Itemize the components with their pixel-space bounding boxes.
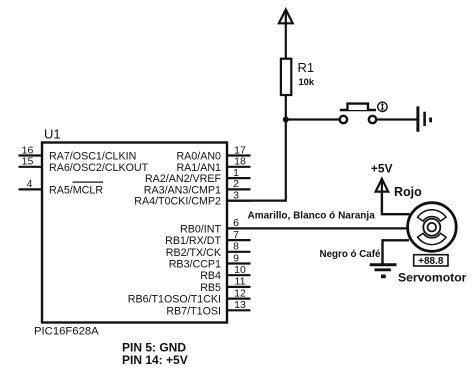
pin 12 RB6 [128, 287, 251, 305]
svg-text:R1: R1 [298, 60, 315, 75]
svg-text:RA5/MCLR: RA5/MCLR [49, 184, 103, 196]
pin 18 RA1 [176, 156, 250, 174]
svg-text:2: 2 [233, 178, 239, 190]
pin 9 RB3 [169, 252, 251, 270]
ground (right of switch) [418, 106, 431, 131]
pin 4 RA5 [19, 178, 104, 196]
svg-text:8: 8 [233, 241, 239, 253]
svg-text:RB5: RB5 [200, 282, 221, 294]
svg-text:+88.8: +88.8 [418, 256, 444, 267]
pin 13 RB7 [166, 299, 250, 317]
pin 15 RA6 [19, 156, 149, 174]
svg-text:Negro ó Café: Negro ó Café [320, 249, 382, 260]
pin 1 RA2 [145, 167, 251, 185]
svg-text:RA7/OSC1/CLKIN: RA7/OSC1/CLKIN [49, 151, 136, 163]
svg-text:12: 12 [234, 287, 246, 299]
wire pin3 horizontal [227, 200, 287, 202]
svg-text:PIC16F628A: PIC16F628A [34, 326, 99, 338]
svg-text:16: 16 [22, 144, 34, 156]
pin 17 RA0 [176, 144, 250, 162]
svg-text:RB6/T1OSO/T1CKI: RB6/T1OSO/T1CKI [128, 294, 221, 306]
power arrow +5V (servo) [376, 179, 389, 192]
svg-text:RB3/CCP1: RB3/CCP1 [169, 259, 221, 271]
svg-text:U1: U1 [44, 127, 61, 142]
svg-text:PIN 14: +5V: PIN 14: +5V [122, 353, 188, 367]
svg-text:Servomotor: Servomotor [398, 270, 467, 284]
svg-text:RB4: RB4 [200, 270, 221, 282]
svg-text:11: 11 [235, 276, 246, 288]
svg-text:RB2/TX/CK: RB2/TX/CK [166, 247, 222, 259]
svg-text:RB0/INT: RB0/INT [180, 223, 221, 235]
svg-text:1: 1 [233, 167, 239, 179]
svg-text:RA4/T0CKI/CMP2: RA4/T0CKI/CMP2 [134, 196, 221, 208]
svg-text:RB7/T1OSI: RB7/T1OSI [166, 305, 221, 317]
wire junction to switch [286, 118, 340, 120]
wire +5V to servo [382, 192, 410, 215]
ground (servo) [370, 265, 397, 277]
push button switch [340, 102, 387, 123]
pin 2 RA3 [144, 178, 251, 196]
svg-text:RB1/RX/DT: RB1/RX/DT [165, 235, 221, 247]
svg-text:RA0/AN0: RA0/AN0 [176, 151, 221, 163]
pin 10 RB4 [200, 264, 250, 282]
wire switch to ground [376, 118, 418, 120]
svg-text:Amarillo, Blanco ó Naranja: Amarillo, Blanco ó Naranja [248, 211, 376, 222]
svg-text:RA6/OSC2/CLKOUT: RA6/OSC2/CLKOUT [49, 162, 149, 174]
junction node [283, 117, 289, 123]
svg-text:4: 4 [27, 178, 33, 190]
svg-text:18: 18 [234, 156, 246, 168]
svg-text:9: 9 [233, 252, 239, 264]
pin 6 RB0 [180, 217, 239, 235]
wire pin6 signal to servo [227, 227, 409, 229]
pin 7 RB1 [165, 229, 250, 247]
svg-text:RA2/AN2/VREF: RA2/AN2/VREF [145, 173, 221, 185]
svg-text:Rojo: Rojo [394, 185, 422, 199]
resistor R1 [281, 59, 315, 95]
svg-text:17: 17 [234, 144, 246, 156]
microcontroller U1 (PIC16F628A) [34, 127, 227, 338]
svg-text:13: 13 [234, 299, 246, 311]
svg-text:RA3/AN3/CMP1: RA3/AN3/CMP1 [144, 184, 221, 196]
svg-text:RA1/AN1: RA1/AN1 [176, 162, 221, 174]
svg-text:10k: 10k [299, 77, 315, 87]
pin 11 RB5 [200, 276, 250, 294]
wire R1 to junction to pin3 [285, 95, 287, 201]
pin 16 RA7 [19, 144, 137, 162]
pin 8 RB2 [166, 241, 251, 259]
svg-text:15: 15 [22, 156, 34, 168]
servomotor symbol [408, 203, 457, 252]
svg-text:7: 7 [233, 229, 239, 241]
+88.8 display [414, 255, 448, 267]
wire servo to ground [383, 240, 410, 263]
svg-text:+5V: +5V [371, 162, 393, 176]
pin 3 RA4 [134, 189, 250, 207]
svg-text:10: 10 [234, 264, 246, 276]
power symbol VCC (pull-up) [279, 10, 293, 59]
